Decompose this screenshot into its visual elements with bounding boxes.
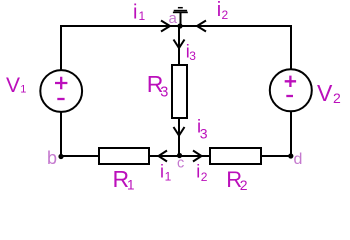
node d xyxy=(288,153,293,158)
svg-text:2: 2 xyxy=(201,170,208,184)
svg-text:a: a xyxy=(169,10,178,27)
svg-text:3: 3 xyxy=(189,49,196,63)
current arrow i2 top xyxy=(197,21,206,32)
wire bottom from node b to R1 xyxy=(61,155,98,157)
node b xyxy=(58,154,63,159)
wire from R2 to node d xyxy=(262,155,291,157)
svg-text:3: 3 xyxy=(200,126,208,142)
svg-text:2: 2 xyxy=(240,177,248,193)
svg-text:V: V xyxy=(6,74,20,97)
svg-text:i: i xyxy=(160,162,164,182)
svg-text:1: 1 xyxy=(139,9,146,23)
svg-text:1: 1 xyxy=(127,178,135,193)
current arrow i3 lower xyxy=(174,127,185,136)
wire right rail upper xyxy=(290,25,292,70)
current arrow i2 bottom xyxy=(193,151,202,162)
node c xyxy=(177,153,182,158)
node a xyxy=(177,23,182,28)
svg-text:b: b xyxy=(47,148,57,168)
wire center from node a to R3 xyxy=(178,26,180,64)
svg-text:2: 2 xyxy=(222,8,229,22)
wire from R1 to node c xyxy=(150,155,179,157)
wire top from node a to V2 xyxy=(179,25,291,27)
svg-text:3: 3 xyxy=(160,85,168,101)
svg-text:V: V xyxy=(317,80,333,106)
svg-text:1: 1 xyxy=(165,169,172,183)
svg-text:d: d xyxy=(294,151,303,168)
resistor R2 xyxy=(210,148,261,164)
voltage source V2 xyxy=(270,69,312,111)
wire left rail upper xyxy=(60,25,62,71)
current arrow i1 bottom xyxy=(159,151,168,162)
svg-text:i: i xyxy=(133,2,137,24)
current arrow i3 upper xyxy=(174,40,185,49)
wire right rail lower xyxy=(290,111,292,158)
ground xyxy=(173,8,188,26)
wire from node c to R2 xyxy=(179,155,209,157)
wire center from R3 to node c xyxy=(178,119,180,156)
svg-text:c: c xyxy=(177,156,184,172)
svg-text:1: 1 xyxy=(20,84,26,96)
resistor R3 xyxy=(172,65,187,118)
wire left rail lower xyxy=(60,111,62,157)
svg-text:i: i xyxy=(196,162,200,182)
resistor R1 xyxy=(99,148,149,164)
current arrow i1 top xyxy=(161,21,170,32)
svg-text:2: 2 xyxy=(333,90,341,106)
wire top from V1 to node a xyxy=(61,25,179,27)
voltage source V1 xyxy=(40,70,82,112)
